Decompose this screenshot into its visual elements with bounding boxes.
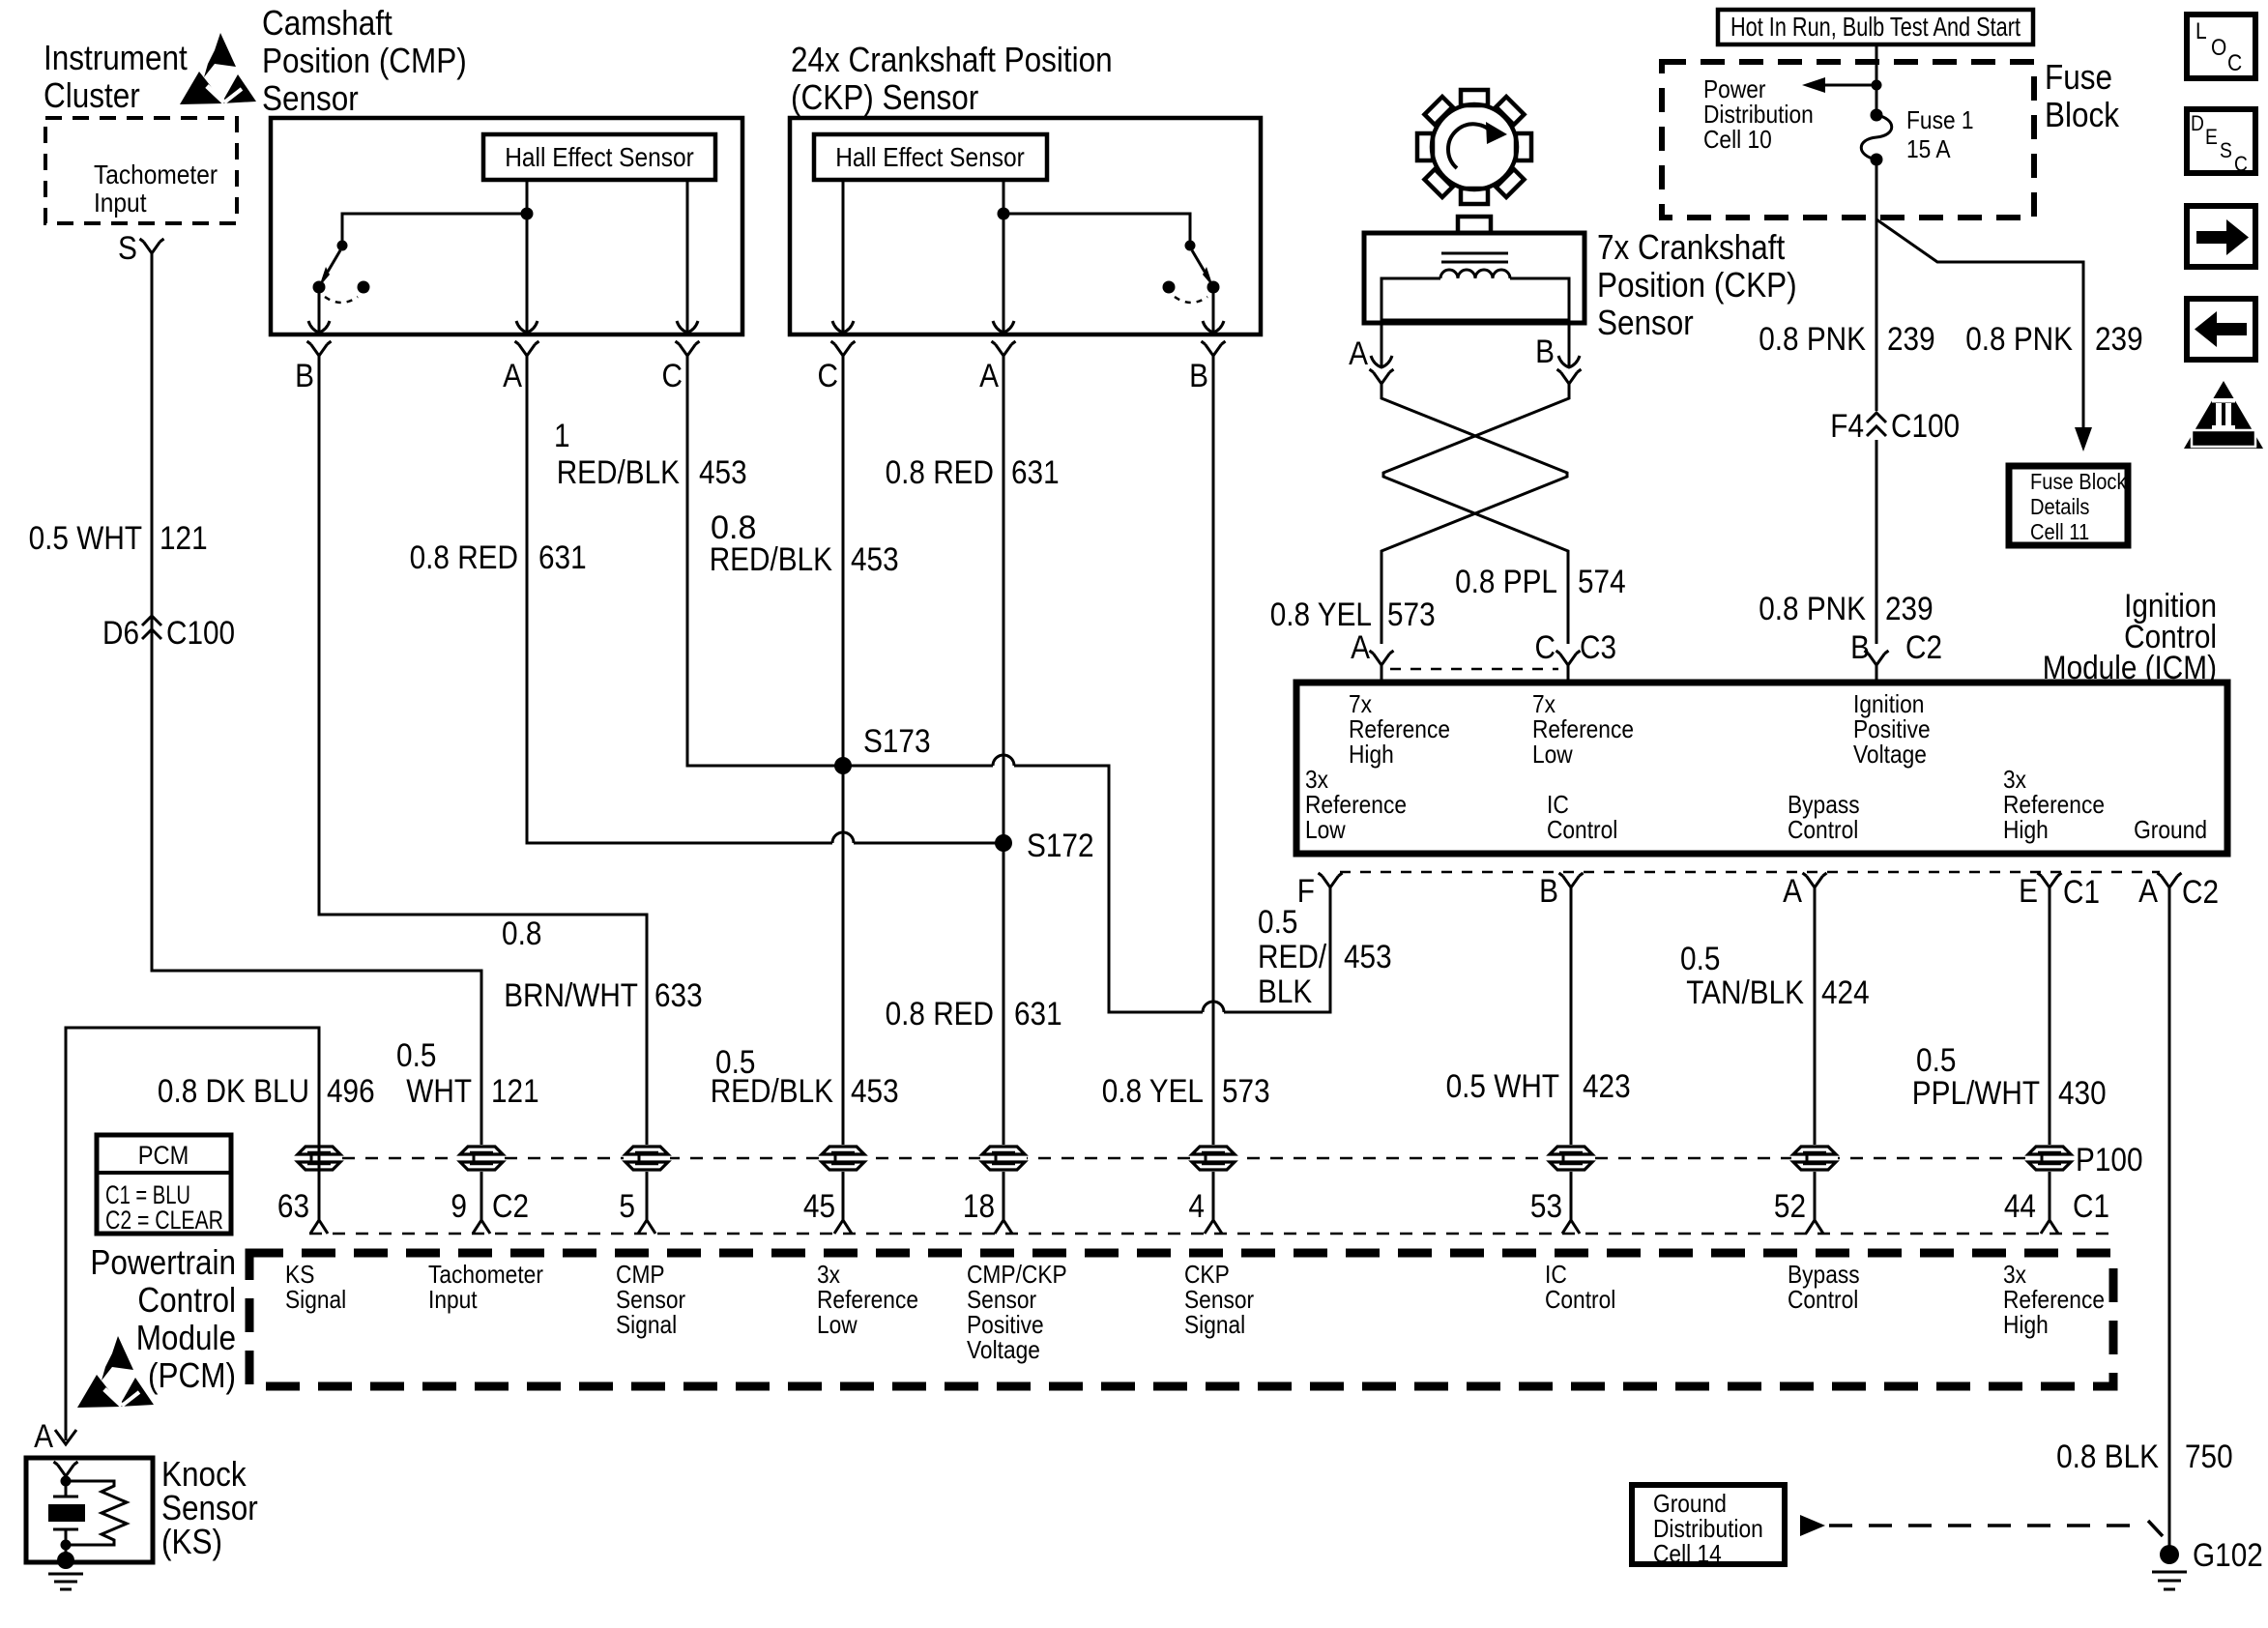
svg-text:OBD II: OBD II bbox=[2202, 431, 2246, 448]
switch open contact dot (CMP) bbox=[358, 281, 370, 294]
7x CKP sensor box bbox=[1364, 233, 1585, 323]
svg-text:Control: Control bbox=[1547, 815, 1617, 844]
twisted pair wire A (7x CKP A to ICM C) bbox=[1381, 384, 1567, 644]
svg-text:Sensor: Sensor bbox=[262, 78, 359, 118]
svg-text:4: 4 bbox=[1188, 1188, 1205, 1225]
svg-text:239: 239 bbox=[2095, 321, 2143, 358]
knock sensor pin connector bbox=[54, 1462, 78, 1476]
wire hop over RED/BLK wire bbox=[832, 832, 854, 843]
svg-text:121: 121 bbox=[491, 1073, 539, 1110]
svg-text:Input: Input bbox=[428, 1285, 478, 1314]
svg-text:C2: C2 bbox=[492, 1188, 529, 1225]
svg-text:A: A bbox=[1351, 629, 1370, 666]
svg-text:Powertrain: Powertrain bbox=[90, 1242, 236, 1282]
junction dot on A wire (CKP) bbox=[998, 208, 1010, 220]
inline connector at CMP signal wire bbox=[624, 1145, 670, 1172]
wire 0.8 PNK 239 down from fuse bbox=[1875, 160, 1878, 411]
switch contact dot (CKP) bbox=[1207, 281, 1220, 294]
twisted pair wire B (7x CKP B to ICM A) bbox=[1383, 384, 1569, 644]
fuse block dashed box bbox=[1662, 62, 2034, 218]
wire 0.8 YEL 573 (CKP pin B to PCM 4) bbox=[1212, 356, 1215, 1220]
svg-text:Control: Control bbox=[1545, 1285, 1615, 1314]
svg-text:B: B bbox=[1539, 873, 1558, 910]
svg-text:15 A: 15 A bbox=[1906, 134, 1951, 163]
CMP sensor box bbox=[271, 118, 742, 334]
svg-text:24x Crankshaft Position: 24x Crankshaft Position bbox=[791, 40, 1113, 79]
svg-text:Hall Effect Sensor: Hall Effect Sensor bbox=[835, 142, 1025, 172]
svg-text:430: 430 bbox=[2058, 1075, 2107, 1112]
switch pivot dot (CMP) bbox=[337, 241, 348, 251]
svg-text:0.8 YEL: 0.8 YEL bbox=[1102, 1073, 1204, 1110]
svg-text:O: O bbox=[2211, 35, 2226, 61]
svg-text:496: 496 bbox=[327, 1073, 375, 1110]
svg-text:0.8 PPL: 0.8 PPL bbox=[1455, 564, 1557, 600]
Ground Distribution Cell 14 box bbox=[1632, 1485, 1785, 1564]
svg-text:0.8 PNK: 0.8 PNK bbox=[1759, 321, 1866, 358]
Hall Effect Sensor box (CKP) bbox=[814, 134, 1047, 180]
svg-text:(KS): (KS) bbox=[161, 1522, 222, 1561]
svg-text:750: 750 bbox=[2185, 1439, 2233, 1475]
svg-text:9: 9 bbox=[451, 1188, 467, 1225]
svg-text:Signal: Signal bbox=[285, 1285, 346, 1314]
junction dot on A wire (CMP) bbox=[521, 208, 534, 220]
svg-text:0.5 WHT: 0.5 WHT bbox=[29, 520, 142, 557]
ground dot on box edge (KS) bbox=[65, 1545, 68, 1558]
svg-text:L: L bbox=[2195, 18, 2207, 44]
svg-text:453: 453 bbox=[851, 1073, 899, 1110]
svg-text:573: 573 bbox=[1222, 1073, 1270, 1110]
inline connector at 3x reference low wire bbox=[820, 1145, 866, 1172]
svg-text:Low: Low bbox=[1532, 740, 1573, 769]
svg-text:1: 1 bbox=[554, 418, 570, 454]
svg-text:A: A bbox=[503, 358, 522, 394]
ESD symbol (PCM) bbox=[77, 1336, 154, 1408]
LOC icon box bbox=[2187, 15, 2255, 78]
svg-text:Module: Module bbox=[136, 1318, 236, 1357]
switch contact dot (CMP) bbox=[313, 281, 326, 294]
wire 0.8 RED 631 (CMP pin A to S172) bbox=[527, 356, 832, 843]
svg-text:53: 53 bbox=[1530, 1188, 1562, 1225]
inline connector at IC control wire bbox=[1548, 1145, 1594, 1172]
svg-text:High: High bbox=[1349, 740, 1394, 769]
ground symbol (KS) bbox=[48, 1574, 83, 1589]
wire: hall sensor to pin C (CKP) bbox=[842, 180, 845, 324]
svg-text:239: 239 bbox=[1887, 321, 1935, 358]
svg-text:424: 424 bbox=[1821, 974, 1870, 1011]
pin B connector (CMP) bbox=[307, 341, 332, 356]
svg-text:Cluster: Cluster bbox=[44, 75, 140, 115]
svg-text:C2: C2 bbox=[2182, 874, 2219, 911]
svg-text:C3: C3 bbox=[1580, 629, 1616, 666]
wire 0.8 BLK 750 (ICM ground to G102) bbox=[2168, 887, 2171, 1553]
svg-text:PPL/WHT: PPL/WHT bbox=[1912, 1075, 2040, 1112]
svg-text:A: A bbox=[1783, 873, 1802, 910]
svg-text:A: A bbox=[979, 358, 999, 394]
arrowheads at CMP box bottom bbox=[308, 321, 330, 333]
knock sensor box bbox=[26, 1458, 153, 1562]
svg-text:S: S bbox=[2220, 138, 2232, 162]
svg-text:Cell 10: Cell 10 bbox=[1703, 125, 1772, 154]
svg-text:Tachometer: Tachometer bbox=[94, 160, 218, 189]
svg-text:Voltage: Voltage bbox=[1853, 740, 1927, 769]
svg-text:573: 573 bbox=[1387, 596, 1436, 633]
svg-text:Block: Block bbox=[2045, 95, 2120, 134]
svg-text:S: S bbox=[118, 230, 137, 267]
svg-text:Control: Control bbox=[137, 1280, 236, 1320]
wires C3 into ICM top bbox=[1381, 665, 1568, 683]
pin B connector (CKP) bbox=[1202, 341, 1226, 356]
svg-text:63: 63 bbox=[277, 1188, 309, 1225]
svg-text:Cell 11: Cell 11 bbox=[2030, 519, 2089, 544]
svg-text:423: 423 bbox=[1583, 1068, 1631, 1105]
svg-text:Low: Low bbox=[1305, 815, 1346, 844]
wire: hall sensor to pin A (CMP) bbox=[526, 180, 529, 324]
junction dot and arrow to power distribution bbox=[1872, 80, 1882, 91]
wire: hall sensor to pin A (CKP) bbox=[1003, 180, 1005, 324]
ICM pin B bbox=[1559, 873, 1584, 887]
rotation arrow inside gear bbox=[1448, 124, 1494, 168]
inline connector at CMP/CKP positive voltage wire bbox=[980, 1145, 1027, 1172]
svg-text:239: 239 bbox=[1885, 591, 1934, 627]
svg-text:Voltage: Voltage bbox=[967, 1335, 1040, 1364]
svg-text:52: 52 bbox=[1774, 1188, 1806, 1225]
svg-text:RED/BLK: RED/BLK bbox=[711, 1073, 834, 1110]
switch dashed travel arc (CMP) bbox=[325, 297, 358, 303]
OBD II triangle icon bbox=[2184, 381, 2263, 449]
svg-text:Position (CMP): Position (CMP) bbox=[262, 41, 467, 80]
svg-text:(CKP) Sensor: (CKP) Sensor bbox=[791, 77, 978, 117]
arrow from ground distribution box bbox=[1800, 1515, 1825, 1536]
switch dashed travel arc (CKP) bbox=[1175, 297, 1207, 303]
svg-text:P100: P100 bbox=[2076, 1142, 2143, 1178]
svg-text:631: 631 bbox=[1014, 996, 1062, 1032]
inline connector at CKP signal wire bbox=[1190, 1145, 1236, 1172]
svg-text:F: F bbox=[1297, 873, 1315, 910]
svg-text:RED/BLK: RED/BLK bbox=[557, 454, 681, 491]
svg-text:0.5: 0.5 bbox=[1680, 941, 1720, 977]
svg-text:Camshaft: Camshaft bbox=[262, 3, 393, 43]
svg-text:Details: Details bbox=[2030, 494, 2090, 519]
ICM pin E / C1 bbox=[2038, 873, 2062, 887]
wire from S173 to ICM pin F (0.5 RED/BLK 453) bbox=[843, 765, 993, 768]
svg-text:A: A bbox=[34, 1418, 53, 1455]
svg-text:F4: F4 bbox=[1830, 408, 1864, 445]
coil inner frame bbox=[1381, 278, 1569, 320]
branch to fuse block details bbox=[1876, 219, 2083, 429]
svg-text:C1: C1 bbox=[2063, 874, 2100, 911]
svg-text:0.8 RED: 0.8 RED bbox=[886, 996, 994, 1032]
svg-text:0.8: 0.8 bbox=[502, 916, 541, 952]
svg-text:453: 453 bbox=[699, 454, 747, 491]
Fuse Block Details box bbox=[2009, 466, 2128, 545]
G102 ground symbol bbox=[2152, 1572, 2187, 1589]
wire 0.5 RED/BLK 453 (S173 to PCM 45) bbox=[842, 356, 845, 1220]
svg-text:45: 45 bbox=[803, 1188, 835, 1225]
svg-text:High: High bbox=[2003, 1310, 2049, 1339]
ICM bottom connector dashed line bbox=[1340, 871, 2160, 874]
DESC icon box bbox=[2187, 109, 2255, 173]
Hot In Run box bbox=[1718, 10, 2033, 44]
svg-text:Control: Control bbox=[1788, 815, 1858, 844]
svg-text:C1: C1 bbox=[2073, 1188, 2109, 1225]
svg-text:D6: D6 bbox=[102, 615, 139, 652]
svg-text:D: D bbox=[2191, 111, 2204, 135]
pickup coil bbox=[1440, 270, 1510, 278]
svg-text:574: 574 bbox=[1578, 564, 1626, 600]
7x CKP sensor nub bbox=[1458, 217, 1491, 233]
dashed line to G102 bbox=[1829, 1524, 2141, 1527]
ICM pin A bbox=[1803, 873, 1827, 887]
svg-text:TAN/BLK: TAN/BLK bbox=[1686, 974, 1804, 1011]
pin C connector (CMP) bbox=[676, 341, 700, 356]
svg-text:0.5: 0.5 bbox=[1916, 1042, 1956, 1079]
svg-text:C: C bbox=[1535, 629, 1556, 666]
switch arm with arrowhead (CMP) bbox=[328, 250, 340, 272]
svg-text:C: C bbox=[2227, 50, 2242, 76]
svg-text:BLK: BLK bbox=[1258, 974, 1312, 1010]
ESD symbol (instrument cluster) bbox=[180, 33, 256, 104]
fuse F1 15A symbol bbox=[1871, 109, 1883, 122]
svg-text:18: 18 bbox=[963, 1188, 995, 1225]
24x CKP sensor box bbox=[790, 118, 1261, 334]
resistor (KS) bbox=[66, 1481, 127, 1545]
switch arm with arrowhead (CKP) bbox=[1192, 250, 1205, 272]
pin B connector (7x CKP) bbox=[1557, 369, 1582, 384]
inline connector at 3x reference high wire bbox=[2026, 1145, 2073, 1172]
svg-text:453: 453 bbox=[1344, 939, 1392, 975]
svg-text:0.5 WHT: 0.5 WHT bbox=[1446, 1068, 1559, 1105]
junction dot bottom (KS) bbox=[61, 1540, 72, 1551]
left arrow icon box bbox=[2187, 299, 2255, 360]
inline connector at bypass control wire bbox=[1791, 1145, 1838, 1172]
svg-text:44: 44 bbox=[2004, 1188, 2036, 1225]
pin A connector (CKP) bbox=[992, 341, 1016, 356]
instrument cluster dashed box bbox=[45, 118, 237, 223]
svg-text:(PCM): (PCM) bbox=[148, 1355, 236, 1395]
svg-text:BRN/WHT: BRN/WHT bbox=[504, 977, 638, 1014]
inline connector at KS wire bbox=[296, 1145, 342, 1172]
wire 1 RED/BLK 453 (CMP pin C to S173) bbox=[687, 356, 843, 766]
svg-text:0.8 BLK: 0.8 BLK bbox=[2056, 1439, 2159, 1475]
reluctor gear icon bbox=[1417, 90, 1531, 204]
svg-text:A: A bbox=[1349, 335, 1368, 372]
svg-text:C100: C100 bbox=[1891, 408, 1960, 445]
svg-text:RED/BLK: RED/BLK bbox=[710, 541, 833, 578]
svg-text:Control: Control bbox=[1788, 1285, 1858, 1314]
wire: switch to pin B (CMP) bbox=[318, 293, 321, 324]
wire: switch to pin B (CKP) bbox=[1212, 293, 1215, 324]
junction S172 bbox=[995, 834, 1012, 852]
wire to switch (CMP) bbox=[342, 214, 527, 244]
Hall Effect Sensor box (CMP) bbox=[483, 134, 715, 180]
svg-text:Fuse Block: Fuse Block bbox=[2030, 469, 2127, 494]
wire to switch (CKP) bbox=[1003, 214, 1190, 244]
wire 0.5 TAN/BLK 424 (ICM A to PCM 52) bbox=[1814, 887, 1817, 1220]
right arrow icon box bbox=[2187, 206, 2255, 267]
svg-text:High: High bbox=[2003, 815, 2049, 844]
svg-text:Low: Low bbox=[817, 1310, 858, 1339]
wire 0.8 DK BLU 496 (knock sensor to PCM 63) bbox=[66, 1028, 319, 1440]
svg-text:C: C bbox=[818, 358, 839, 394]
wire 0.8 BRN/WHT 633 (CMP pin B to PCM 5) bbox=[319, 356, 647, 1220]
wire 0.8 PNK 239 from C100 to ICM pin B bbox=[1875, 440, 1878, 644]
svg-text:RED/: RED/ bbox=[1258, 939, 1327, 975]
junction S173 bbox=[834, 757, 852, 774]
ICM box bbox=[1296, 683, 2227, 854]
svg-text:631: 631 bbox=[538, 539, 587, 576]
svg-text:0.8 PNK: 0.8 PNK bbox=[1759, 591, 1866, 627]
svg-text:453: 453 bbox=[851, 541, 899, 578]
svg-text:Sensor: Sensor bbox=[1597, 303, 1694, 342]
svg-text:0.8 DK BLU: 0.8 DK BLU bbox=[158, 1073, 309, 1110]
svg-text:A: A bbox=[2138, 873, 2158, 910]
wire 0.5 WHT 423 (ICM B to PCM 53) bbox=[1570, 887, 1573, 1220]
svg-text:Cell 14: Cell 14 bbox=[1653, 1539, 1722, 1568]
svg-text:0.5: 0.5 bbox=[396, 1037, 436, 1074]
wire: 7x CKP pin A bbox=[1381, 320, 1383, 360]
wire: 7x CKP pin B bbox=[1568, 320, 1571, 360]
svg-text:C2 = CLEAR: C2 = CLEAR bbox=[105, 1206, 223, 1235]
svg-text:S172: S172 bbox=[1027, 828, 1094, 864]
svg-text:Hot In Run, Bulb Test And Star: Hot In Run, Bulb Test And Start bbox=[1730, 12, 2021, 42]
svg-text:PCM: PCM bbox=[138, 1141, 189, 1170]
svg-text:B: B bbox=[1189, 358, 1208, 394]
svg-text:E: E bbox=[2205, 125, 2218, 149]
svg-text:Instrument: Instrument bbox=[44, 38, 188, 77]
pin C connector (CKP) bbox=[831, 341, 856, 356]
switch open contact dot (CKP) bbox=[1163, 281, 1176, 294]
svg-text:C: C bbox=[2234, 152, 2248, 176]
svg-text:E: E bbox=[2019, 873, 2038, 910]
svg-text:0.5: 0.5 bbox=[1258, 904, 1297, 941]
svg-text:Input: Input bbox=[94, 188, 147, 218]
capacitor element (KS) bbox=[53, 1476, 78, 1545]
svg-text:S173: S173 bbox=[863, 723, 931, 760]
svg-text:7x Crankshaft: 7x Crankshaft bbox=[1597, 227, 1785, 267]
dashed connector line C3 bbox=[1390, 668, 1558, 671]
pin A connector (CMP) bbox=[515, 341, 539, 356]
svg-text:121: 121 bbox=[160, 520, 208, 557]
G102 ground dot bbox=[2160, 1545, 2179, 1564]
PCM connector legend box bbox=[97, 1135, 231, 1234]
core lines of pickup coil bbox=[1441, 253, 1508, 262]
switch pivot dot (CKP) bbox=[1185, 241, 1196, 251]
svg-text:B: B bbox=[1535, 334, 1555, 370]
svg-text:Fuse: Fuse bbox=[2045, 57, 2112, 97]
svg-text:WHT: WHT bbox=[406, 1073, 472, 1110]
svg-text:Signal: Signal bbox=[616, 1310, 677, 1339]
svg-text:0.8 YEL: 0.8 YEL bbox=[1270, 596, 1372, 633]
svg-text:0.8 RED: 0.8 RED bbox=[886, 454, 994, 491]
svg-text:C2: C2 bbox=[1905, 629, 1942, 666]
svg-text:Hall Effect Sensor: Hall Effect Sensor bbox=[505, 142, 694, 172]
svg-text:Position (CKP): Position (CKP) bbox=[1597, 265, 1797, 305]
wire: hall sensor to pin C (CMP) bbox=[686, 180, 689, 324]
svg-text:B: B bbox=[295, 358, 314, 394]
svg-text:631: 631 bbox=[1011, 454, 1060, 491]
svg-text:Ground: Ground bbox=[2134, 815, 2207, 844]
junction dot top (KS) bbox=[61, 1476, 72, 1487]
wire 0.5 PPL/WHT 430 (ICM E to PCM 44) bbox=[2049, 887, 2051, 1220]
inline connector at tachometer wire bbox=[458, 1145, 505, 1172]
svg-text:C: C bbox=[662, 358, 683, 394]
svg-text:Signal: Signal bbox=[1184, 1310, 1245, 1339]
svg-text:0.8 PNK: 0.8 PNK bbox=[1965, 321, 2073, 358]
wire 0.5 WHT 121 (tachometer input, S to C100) bbox=[152, 253, 481, 1220]
svg-text:G102: G102 bbox=[2193, 1537, 2263, 1574]
PCM dashed box bbox=[249, 1253, 2113, 1386]
svg-text:B: B bbox=[1850, 629, 1870, 666]
wire 0.8 RED 631 (CKP pin A through S172 to PCM 18) bbox=[1003, 356, 1005, 1220]
pin A connector (7x CKP) bbox=[1370, 369, 1394, 384]
P100 dashed line bbox=[319, 1157, 2069, 1160]
wire from Hot In Run through fuse bbox=[1875, 44, 1878, 115]
thin dashed connector face line bbox=[309, 1233, 2113, 1236]
arrowheads at CKP box bottom bbox=[832, 321, 854, 333]
svg-text:5: 5 bbox=[619, 1188, 635, 1225]
ICM pin F bbox=[1319, 873, 1343, 887]
svg-text:633: 633 bbox=[654, 977, 703, 1014]
ICM pin A / C2 bbox=[2158, 873, 2182, 887]
svg-text:0.8 RED: 0.8 RED bbox=[410, 539, 518, 576]
svg-text:C100: C100 bbox=[166, 615, 235, 652]
svg-text:Fuse 1: Fuse 1 bbox=[1906, 105, 1974, 134]
